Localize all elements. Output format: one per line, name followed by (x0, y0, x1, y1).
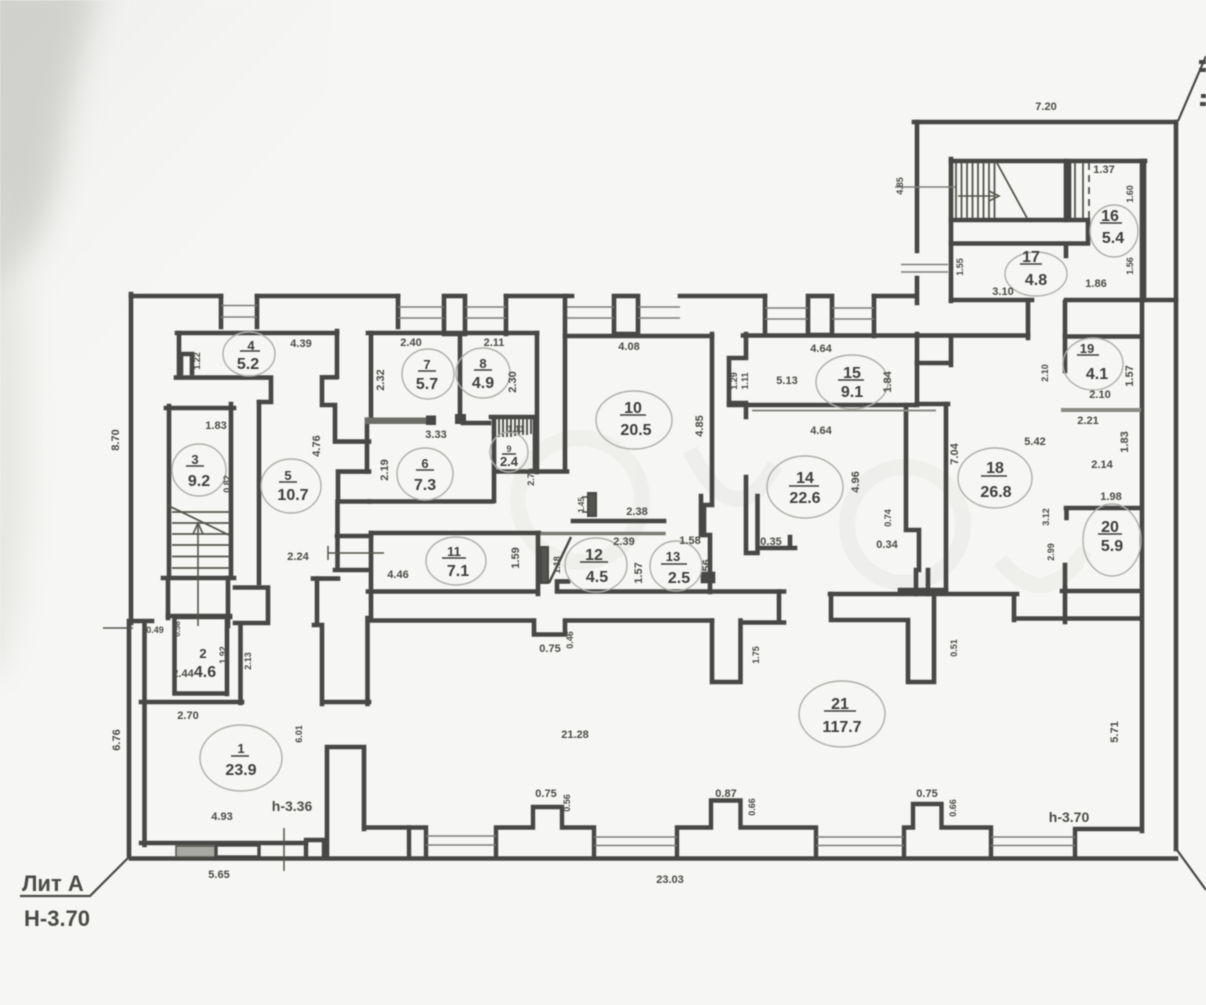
room 2 box (175, 617, 231, 694)
bottom band pier C with bump 0.87 (677, 801, 816, 859)
svg-text:2.99: 2.99 (1046, 543, 1056, 561)
room 6 label (414, 456, 436, 494)
svg-text:0.82: 0.82 (222, 475, 232, 493)
window W3 top (465, 307, 506, 318)
inner face of top wall / top walls of rooms 4,7,8 (177, 331, 537, 336)
room 14 right wall with jog (906, 405, 919, 570)
svg-text:4.9: 4.9 (472, 375, 494, 392)
svg-text:0.66: 0.66 (948, 799, 958, 817)
corridor zigzag right of room 18 top (1014, 596, 1141, 620)
svg-text:1.22: 1.22 (192, 352, 202, 370)
svg-text:0.46: 0.46 (565, 631, 575, 649)
svg-text:2.70: 2.70 (526, 468, 536, 486)
svg-text:2.14: 2.14 (1091, 459, 1113, 471)
svg-text:2.32: 2.32 (375, 369, 387, 390)
svg-text:10.7: 10.7 (277, 487, 308, 504)
corridor wall right of room 8 (535, 333, 540, 472)
svg-text:1.60: 1.60 (1125, 185, 1135, 203)
svg-text:2.19: 2.19 (379, 459, 391, 480)
bottom wall band with piers and windows (141, 801, 1138, 859)
svg-text:1.37: 1.37 (1093, 164, 1114, 176)
room 12 upper wall second line (542, 532, 664, 535)
room 1 label (225, 741, 256, 779)
svg-text:23.9: 23.9 (225, 762, 256, 779)
room 10 label (620, 400, 651, 439)
svg-text:0.51: 0.51 (949, 639, 959, 657)
small pier left of entrance (306, 840, 324, 857)
entrance grey sill bottom left (176, 846, 216, 857)
room 11 bottom wall (368, 589, 534, 594)
svg-text:13: 13 (666, 549, 680, 564)
svg-text:2.40: 2.40 (400, 337, 421, 349)
svg-text:12: 12 (585, 547, 603, 564)
room 11 top wall / corridor wall (371, 531, 539, 536)
left wall lower jog (129, 621, 152, 855)
svg-text:0.75: 0.75 (539, 643, 560, 655)
svg-text:7: 7 (423, 357, 430, 372)
room 21 pillar A (712, 621, 784, 683)
svg-text:3.10: 3.10 (992, 286, 1013, 298)
svg-text:117.7: 117.7 (822, 719, 861, 736)
svg-text:5.65: 5.65 (208, 869, 229, 881)
svg-text:10: 10 (624, 400, 642, 417)
exterior right outer wall (1174, 122, 1179, 849)
small porch box right of landing (235, 588, 268, 624)
room 4 label (237, 338, 259, 373)
inner wall right of entrance (367, 825, 409, 829)
room 16 dashed partition (1088, 163, 1090, 218)
room 4 left wall (177, 333, 182, 377)
h-3.36 survey tick line (283, 828, 285, 871)
top band pillar P1 (444, 296, 465, 334)
pier above wall y594 at x922 (916, 570, 928, 594)
Lit A title (20, 857, 129, 931)
grey line under room 15 bottom wall (752, 410, 936, 412)
dimension texts horizontal (146, 101, 1121, 886)
svg-text:2: 2 (199, 646, 206, 661)
svg-text:9.2: 9.2 (188, 473, 210, 490)
svg-text:1.56: 1.56 (701, 559, 713, 580)
room number underlines (186, 223, 1122, 756)
svg-text:1.75: 1.75 (751, 646, 761, 664)
pier stub above room 12 (582, 493, 596, 516)
left wall dimension tick (103, 627, 133, 629)
svg-text:2.30: 2.30 (507, 371, 519, 392)
svg-text:Н-3.70: Н-3.70 (24, 906, 90, 931)
room 3 box (163, 404, 234, 578)
svg-text:1.55: 1.55 (955, 258, 965, 276)
svg-text:2.24: 2.24 (287, 551, 309, 563)
svg-text:5.71: 5.71 (1109, 721, 1121, 742)
svg-text:16: 16 (1101, 208, 1119, 225)
svg-text:4.64: 4.64 (810, 343, 832, 355)
svg-text:2.13: 2.13 (243, 652, 253, 670)
room 21 label (822, 696, 861, 736)
svg-text:1.18: 1.18 (552, 556, 562, 574)
svg-text:20.5: 20.5 (620, 422, 651, 439)
svg-text:26.8: 26.8 (980, 484, 1011, 501)
svg-text:4.46: 4.46 (387, 569, 408, 581)
room 16/17 divider (1064, 161, 1069, 256)
rooms 5/6 bottom wall (369, 499, 492, 504)
svg-text:21.28: 21.28 (561, 729, 589, 741)
room 3 stairs center line with arrow (193, 523, 203, 626)
svg-text:21: 21 (831, 696, 849, 713)
svg-text:2.39: 2.39 (613, 536, 634, 548)
room 7 label (416, 357, 438, 393)
svg-text:3.33: 3.33 (425, 429, 446, 441)
svg-text:2.70: 2.70 (177, 710, 198, 722)
inner right wall (1140, 161, 1145, 831)
svg-text:4.08: 4.08 (618, 341, 639, 353)
svg-text:1.57: 1.57 (633, 562, 645, 583)
svg-text:Лит А: Лит А (22, 871, 84, 896)
svg-text:1.84: 1.84 (882, 370, 894, 392)
room 15 label (841, 365, 863, 401)
scanner smudge top-left (0, 0, 100, 680)
room 18 label (980, 460, 1011, 501)
door stop square room13/14 (703, 574, 713, 581)
annex stairwell left wall (949, 159, 954, 301)
room 7 door stop square (426, 416, 436, 426)
room 12 label (585, 547, 608, 586)
annex top wall (914, 120, 1176, 125)
svg-text:11: 11 (447, 544, 461, 559)
room 4 closet notch (181, 354, 192, 373)
svg-text:5.2: 5.2 (237, 356, 259, 373)
window W7 top (832, 308, 874, 319)
svg-text:7.3: 7.3 (414, 477, 436, 494)
bottom window 1 lines (426, 836, 496, 845)
room 19 left wall (1063, 302, 1068, 371)
svg-text:0.58: 0.58 (173, 621, 182, 637)
window W4 top (567, 307, 614, 318)
svg-text:6: 6 (421, 456, 428, 471)
svg-text:0.49: 0.49 (146, 625, 164, 635)
window W2 top (398, 307, 444, 318)
svg-text:0.35: 0.35 (760, 536, 781, 548)
bottom window 3 lines (816, 837, 904, 846)
svg-text:0.56: 0.56 (562, 794, 572, 812)
svg-text:1.92: 1.92 (218, 646, 228, 664)
room 1 bottom inner wall (141, 841, 306, 845)
svg-text:20: 20 (1101, 519, 1119, 536)
window thin lines (221, 187, 1075, 846)
svg-text:4.5: 4.5 (586, 569, 608, 586)
svg-text:2.44: 2.44 (172, 668, 194, 680)
room 5 label (277, 468, 308, 504)
stairwell landing walls below room 3 (168, 578, 228, 626)
svg-text:0.34: 0.34 (876, 539, 898, 551)
bottom band pier B with bump 0.75 (496, 807, 594, 858)
exterior left wall (129, 294, 134, 623)
room label ellipses (172, 205, 1141, 791)
svg-text:14: 14 (796, 470, 814, 487)
annex stairs treads (956, 163, 1083, 218)
room 19 label (1080, 341, 1108, 383)
exterior bottom outer wall (131, 856, 1176, 861)
annex left wall (915, 122, 920, 405)
bottom-right corner diagonal (1177, 850, 1206, 890)
room 19 top wall (1065, 334, 1141, 339)
room 11 label (447, 544, 469, 580)
room 16 label (1101, 208, 1124, 247)
svg-text:4.6: 4.6 (194, 664, 216, 681)
room 21 pillar B (831, 594, 934, 682)
room 13 right wall (701, 496, 710, 592)
svg-text:22.6: 22.6 (789, 490, 820, 507)
svg-text:4.96: 4.96 (850, 471, 862, 492)
descender at right end of rooms12/13 wall (777, 592, 782, 621)
room 20 bottom wall (1062, 589, 1141, 594)
svg-text:19: 19 (1080, 341, 1094, 356)
under-stairs room left bottom (168, 614, 230, 619)
svg-text:4.64: 4.64 (810, 425, 832, 437)
annex side door lines (901, 265, 948, 273)
window W1 top (221, 306, 257, 318)
corridor zigzag between rooms 4,5,7 (322, 377, 369, 471)
svg-text:1.57: 1.57 (1124, 365, 1136, 386)
room 9 box walls (491, 417, 535, 501)
svg-text:4.8: 4.8 (1025, 272, 1047, 289)
svg-text:h-3.36: h-3.36 (272, 798, 313, 814)
room 9 hatch comb (499, 419, 531, 437)
window W6 top (765, 308, 808, 319)
annex stairs diagonal break (997, 163, 1027, 218)
room 16 right wall (1142, 161, 1147, 300)
svg-text:1: 1 (237, 741, 244, 756)
svg-text:4.85: 4.85 (895, 177, 905, 195)
svg-text:2.11: 2.11 (484, 337, 505, 349)
dimension texts rotated (110, 177, 1136, 817)
room 10 top wall (565, 334, 712, 339)
room 11 right wall (536, 533, 541, 594)
room 3 label (188, 452, 210, 490)
svg-text:18: 18 (986, 460, 1004, 477)
room 17 step walls down to main (917, 302, 1028, 365)
corridor notch below room 11 (557, 581, 568, 591)
top band pillar P2 (614, 296, 638, 334)
svg-text:1.58: 1.58 (679, 535, 700, 547)
room 15 left jog (729, 334, 746, 417)
room 8 label (472, 356, 494, 392)
room 14 label (789, 470, 820, 507)
room 20 left lower wall (1063, 588, 1068, 622)
entrance window box bottom left (216, 845, 259, 857)
room 11 left wall (369, 533, 374, 620)
room 3 stairs diagonal (167, 505, 231, 536)
junction pillar room13/14 top (746, 477, 795, 553)
svg-text:23.03: 23.03 (656, 874, 684, 886)
svg-text:1.11: 1.11 (740, 372, 750, 389)
svg-text:9: 9 (506, 444, 511, 454)
room 3 right wall / corridor wall (257, 402, 262, 583)
svg-text:5.42: 5.42 (1024, 436, 1045, 448)
svg-text:7.04: 7.04 (949, 442, 961, 464)
svg-text:2.38: 2.38 (626, 506, 647, 518)
room 13 label (666, 549, 690, 587)
svg-text:3: 3 (191, 452, 198, 467)
room 12 top niche wall (573, 519, 664, 524)
corridor pocket between room 1 and room 21 (314, 579, 369, 704)
room 10 left wall (563, 296, 568, 470)
room 15 top wall (743, 333, 1028, 338)
annex stairs box top wall (951, 159, 1145, 164)
svg-text:1.98: 1.98 (1100, 491, 1121, 503)
svg-text:4.85: 4.85 (694, 415, 706, 436)
svg-text:2.10: 2.10 (1089, 389, 1110, 401)
top-right corner diagonal (1178, 56, 1206, 121)
room 2 label (194, 646, 216, 681)
exterior top wall (131, 294, 914, 299)
room 9 label (500, 444, 519, 469)
svg-text:h-3.70: h-3.70 (1049, 809, 1090, 825)
svg-text:1.86: 1.86 (1085, 278, 1106, 290)
svg-text:4.76: 4.76 (311, 435, 323, 456)
room 5 right jog (338, 472, 369, 502)
svg-text:15: 15 (843, 365, 861, 382)
room 17 bottom wall (951, 298, 1176, 303)
room 14 bottom wall = rooms wall y594 right part (830, 592, 1017, 597)
room 4 bottom wall (176, 378, 271, 402)
svg-text:1.59: 1.59 (510, 547, 522, 568)
room 8 bottom wall (463, 421, 489, 426)
room 15 bottom wall (729, 403, 914, 408)
svg-text:1.45: 1.45 (577, 497, 586, 513)
room 10 right wall (703, 334, 712, 535)
annex stairs direction arrow (958, 191, 999, 201)
watermark (518, 438, 1085, 585)
room 20 left wall (1063, 565, 1068, 591)
annex stairs bottom / landing slab (951, 220, 1088, 244)
svg-text:5.4: 5.4 (1102, 230, 1124, 247)
room 1 top wall (141, 700, 242, 705)
svg-text:1.29: 1.29 (729, 372, 739, 390)
annex stairs right wall (1067, 163, 1072, 218)
svg-text:0.87: 0.87 (715, 788, 736, 800)
svg-text:1.56: 1.56 (1125, 257, 1135, 275)
svg-text:3.12: 3.12 (1041, 508, 1051, 526)
svg-text:1.83: 1.83 (205, 420, 226, 432)
wall under room 9 and corridor (497, 469, 567, 474)
grey door lintel bars (752, 408, 1141, 413)
bottom window 4 lines (991, 837, 1075, 846)
svg-text:1.11: 1.11 (507, 424, 524, 434)
room 7 left wall (369, 333, 374, 418)
svg-text:0.75: 0.75 (535, 788, 556, 800)
top-right edge letter fragments (1199, 62, 1206, 104)
svg-text:1.83: 1.83 (1119, 431, 1131, 452)
rooms 12/13 bottom wall (560, 589, 784, 594)
room 20 label (1101, 519, 1123, 555)
room 7 bottom wall grey bar (365, 418, 427, 425)
bottom band pier A (409, 828, 426, 859)
room 21 top wall left part (368, 621, 712, 635)
svg-text:2.21: 2.21 (1077, 415, 1098, 427)
svg-text:7.20: 7.20 (1035, 101, 1056, 113)
wall y404 right of annex left wall (917, 402, 948, 407)
svg-text:5.9: 5.9 (1101, 538, 1123, 555)
dim leader 2.24 (328, 546, 384, 560)
svg-text:4.1: 4.1 (1086, 366, 1108, 383)
svg-text:0.74: 0.74 (883, 509, 893, 527)
room 12 entry door jamb and leaf (541, 537, 571, 583)
room 20 top wall (1066, 508, 1141, 518)
lintel below room 19 (1061, 408, 1141, 412)
svg-text:2.5: 2.5 (668, 570, 690, 587)
room 18 left wall (944, 404, 949, 590)
niche walls left of room 11 (313, 502, 371, 579)
svg-text:17: 17 (1022, 249, 1040, 266)
svg-text:6.76: 6.76 (111, 729, 123, 750)
bottom band pier D with bump 0.75 (904, 804, 991, 858)
svg-text:7.1: 7.1 (447, 563, 469, 580)
svg-text:2.10: 2.10 (1040, 364, 1050, 382)
svg-text:0.66: 0.66 (747, 798, 757, 816)
svg-text:6.01: 6.01 (294, 725, 304, 743)
window jambs top band (221, 296, 874, 336)
corridor wall right of room 2 (238, 626, 243, 703)
svg-text:8.70: 8.70 (110, 429, 122, 450)
room 3 stairs treads (172, 512, 230, 568)
svg-text:5.7: 5.7 (416, 376, 438, 393)
top band pillar P3 (808, 296, 832, 335)
svg-text:9.1: 9.1 (841, 384, 863, 401)
svg-text:5.13: 5.13 (776, 375, 797, 387)
svg-text:0.75: 0.75 (916, 788, 937, 800)
svg-text:4.39: 4.39 (290, 338, 311, 350)
room 17 label (1022, 249, 1047, 289)
svg-text:4.93: 4.93 (211, 811, 232, 823)
room 7/8 divider wall (458, 335, 463, 415)
room 7/8 divider door square (455, 414, 466, 424)
window W5 top (638, 307, 680, 318)
room 21 left pillar column (327, 747, 364, 858)
room 4 right wall (335, 331, 340, 377)
svg-text:2.4: 2.4 (500, 454, 519, 469)
svg-text:5: 5 (284, 468, 291, 483)
annex 4.85 tick line (895, 186, 957, 188)
svg-text:4: 4 (247, 338, 255, 353)
svg-text:8: 8 (479, 356, 486, 371)
bottom window 2 lines (594, 837, 677, 846)
bottom band right corner piece (1075, 829, 1138, 858)
wall y590 left of room18 bottom (900, 588, 946, 593)
